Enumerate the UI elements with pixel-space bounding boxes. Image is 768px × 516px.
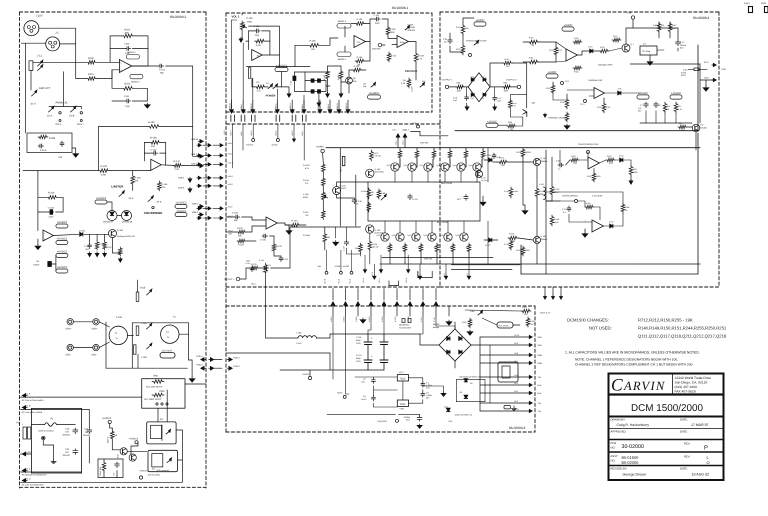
transistor Q100 xyxy=(109,230,117,238)
svg-text:19 AUG 02: 19 AUG 02 xyxy=(692,473,710,477)
resistor R102 feedback xyxy=(122,34,134,38)
capacitor C8 xyxy=(655,102,657,104)
resistor R127 xyxy=(370,150,374,161)
transistor Q139 driver xyxy=(366,225,374,233)
svg-text:J10-2: J10-2 xyxy=(402,129,407,132)
ground vas xyxy=(335,241,337,243)
terminal +HVDC2 supply xyxy=(108,420,111,423)
wire A3B in xyxy=(388,36,397,39)
svg-text:RED: RED xyxy=(538,336,543,339)
ground reg supply xyxy=(443,392,445,394)
svg-text:C2-16: C2-16 xyxy=(356,354,362,357)
svg-text:OVERCURRENT: OVERCURRENT xyxy=(562,195,579,198)
resistor R139 xyxy=(148,125,161,129)
wire emitter rail bottom xyxy=(382,257,493,259)
connector arrow H1B-D xyxy=(252,108,254,112)
svg-text:+15VBC1: +15VBC1 xyxy=(368,92,380,95)
wire drop xyxy=(370,289,372,301)
svg-text:B-D: B-D xyxy=(117,454,120,458)
wire protect xyxy=(415,63,417,80)
ground header xyxy=(293,138,295,141)
wire vbus b xyxy=(355,175,357,226)
svg-text:HS5-1: HS5-1 xyxy=(197,355,204,358)
diode D20 xyxy=(474,42,478,45)
wire bottom rail xyxy=(380,263,700,265)
svg-text:R140,R149,R150,R151,R244,R255,: R140,R149,R150,R151,R244,R255,R250,R251 xyxy=(638,326,727,331)
svg-text:4.7R 4W: 4.7R 4W xyxy=(373,155,381,158)
resistor R24f xyxy=(573,66,582,70)
capacitor C140 xyxy=(255,30,257,32)
svg-text:-15VDC2: -15VDC2 xyxy=(176,210,187,213)
power +HVDC oc xyxy=(474,22,486,26)
svg-text:HT-3: HT-3 xyxy=(514,400,518,403)
svg-text:GRN: GRN xyxy=(538,362,543,365)
diode D13 xyxy=(610,224,613,228)
svg-text:R-134: R-134 xyxy=(303,179,309,182)
svg-text:POWER: POWER xyxy=(266,95,276,98)
wire rc net xyxy=(103,459,105,461)
capacitor C17 xyxy=(494,96,496,98)
ground diode xyxy=(318,101,320,105)
svg-text:Bridge: Bridge xyxy=(433,326,440,329)
wire relay net xyxy=(465,310,521,311)
terminal HVDC supply2 xyxy=(343,395,346,398)
connector arrow PS4 xyxy=(370,303,372,307)
wire top rail xyxy=(326,147,700,149)
svg-text:Q112: Q112 xyxy=(437,164,441,167)
transistor Q31 xyxy=(129,454,136,461)
power +HVDC2 c xyxy=(56,253,68,257)
transistor Q107 right xyxy=(475,170,482,177)
wire C21 bus xyxy=(88,410,90,429)
svg-text:L-100: L-100 xyxy=(296,332,302,335)
svg-text:22uF: 22uF xyxy=(49,216,55,219)
svg-text:2W: 2W xyxy=(371,194,374,197)
svg-text:H0B-D: H0B-D xyxy=(250,130,253,136)
svg-text:H1B-K: H1B-K xyxy=(317,103,320,109)
wire C102 to limiter bus xyxy=(166,66,193,126)
wire jog b xyxy=(418,271,432,277)
terminal CR1- a xyxy=(67,344,73,350)
resistor R143 xyxy=(339,70,343,80)
svg-text:220uF 50V: 220uF 50V xyxy=(99,466,102,476)
connector arrow HT xyxy=(552,287,554,295)
svg-text:1. ALL CAPACITORS VALUES ARE: 1. ALL CAPACITORS VALUES ARE IN MICROFAR… xyxy=(565,351,700,355)
jumper J-106 xyxy=(147,325,152,329)
resistor R65 xyxy=(507,124,516,128)
connector arrow H2B-H left xyxy=(197,144,200,146)
svg-text:0.0047: 0.0047 xyxy=(33,263,40,266)
svg-text:C-102: C-102 xyxy=(232,212,239,215)
svg-text:R712,R212,R150,R255 - 19K: R712,R212,R150,R255 - 19K xyxy=(638,318,693,323)
jack OUTPUT 1 xyxy=(445,85,448,88)
ground A1B xyxy=(37,244,39,246)
svg-text:2N5400: 2N5400 xyxy=(700,127,707,130)
wire collector stub b xyxy=(431,221,433,233)
svg-text:C-138: C-138 xyxy=(356,200,361,203)
svg-text:D21: D21 xyxy=(481,97,484,100)
transistor Q120 xyxy=(460,233,468,241)
svg-text:Q-106: Q-106 xyxy=(340,185,346,188)
wire bottom bus xyxy=(105,322,107,368)
svg-text:S2-B: S2-B xyxy=(69,115,75,118)
connector arrow H1B-N xyxy=(347,108,349,112)
wire collector stub b xyxy=(463,221,465,233)
wire drop xyxy=(345,289,347,301)
diode D107 xyxy=(489,238,492,242)
svg-text:R-127: R-127 xyxy=(373,152,378,155)
svg-text:H1B-G: H1B-G xyxy=(289,103,292,109)
svg-text:H0B-A: H0B-A xyxy=(275,130,278,136)
wire A1B feedback xyxy=(37,171,39,231)
svg-text:GND LIFT: GND LIFT xyxy=(39,87,51,90)
svg-text:Q115: Q115 xyxy=(377,234,381,237)
svg-text:DCM 1500/2000: DCM 1500/2000 xyxy=(631,403,703,414)
resistor R167 xyxy=(387,52,391,62)
op-amp A2 input stage xyxy=(119,60,131,73)
resistor R19 xyxy=(461,24,465,35)
svg-text:.04.Cx: .04.Cx xyxy=(361,398,367,401)
terminal tp xyxy=(469,54,472,57)
svg-text:RLY CNTR: RLY CNTR xyxy=(499,325,509,328)
wire A1B out xyxy=(54,234,80,235)
resistor R101 xyxy=(87,77,97,81)
svg-text:R-110: R-110 xyxy=(554,188,560,191)
svg-text:C-137: C-137 xyxy=(343,246,346,251)
svg-text:MOV mounted: MOV mounted xyxy=(157,469,169,472)
svg-text:R150: R150 xyxy=(418,247,422,250)
ground led xyxy=(288,92,290,96)
svg-text:80-02000: 80-02000 xyxy=(622,460,640,465)
svg-text:NOTE: CHANNEL 1 REFERENCE DES: NOTE: CHANNEL 1 REFERENCE DESIGNATORS BE… xyxy=(575,358,678,362)
resistor R152A xyxy=(322,163,326,173)
transistor Q21 xyxy=(523,110,527,117)
transistor Q5 xyxy=(346,77,353,84)
svg-text:CR1+: CR1+ xyxy=(66,328,73,331)
capacitor C7 xyxy=(645,102,647,104)
svg-text:10R 1W: 10R 1W xyxy=(372,246,379,249)
resistor R163 xyxy=(355,22,365,26)
wire collector stub b xyxy=(399,221,401,233)
transistor Q119 xyxy=(444,233,452,241)
svg-text:100R: 100R xyxy=(596,175,601,178)
wire output HT-7 xyxy=(480,362,528,364)
svg-text:VFW: VFW xyxy=(400,408,405,411)
LED D140 signal xyxy=(405,27,409,30)
svg-text:H10-B: H10-B xyxy=(323,278,326,284)
jack OUTPUT 2 xyxy=(517,85,520,88)
inductor L101 xyxy=(544,187,546,200)
svg-text:REVISED BY:: REVISED BY: xyxy=(611,468,628,471)
wire CR1+ pair xyxy=(73,321,92,323)
svg-text:J-CLO: J-CLO xyxy=(412,198,418,201)
svg-text:(619) 487-1600: (619) 487-1600 xyxy=(675,385,698,389)
svg-text:H10-E: H10-E xyxy=(338,278,341,284)
connector arrow H2B-G mid xyxy=(207,217,210,219)
svg-text:S YEL: S YEL xyxy=(433,317,436,322)
connector HS5-1 right xyxy=(227,359,231,361)
svg-text:R-165: R-165 xyxy=(357,56,364,59)
op-amp A1-A limiter xyxy=(151,159,161,170)
connector arrow H2B-J right xyxy=(219,163,222,165)
regulator VR2 xyxy=(397,400,408,407)
svg-text:+HVDC2: +HVDC2 xyxy=(129,438,139,441)
svg-text:J45902-3: J45902-3 xyxy=(338,20,347,23)
wire fan out xyxy=(630,63,700,65)
terminal CH2+ xyxy=(80,112,82,114)
wire A1B in gnd xyxy=(37,239,39,244)
resistor R141 xyxy=(352,68,362,72)
wire collector stub xyxy=(427,171,429,182)
wire q3 xyxy=(687,126,692,128)
svg-text:86-02000-3: 86-02000-3 xyxy=(509,426,526,430)
connector arrow H2B-E mid xyxy=(207,185,210,187)
wire drop xyxy=(396,289,398,301)
resistor R152 emitter bottom xyxy=(451,243,455,253)
resistor R116 xyxy=(47,196,58,200)
svg-text:R-168: R-168 xyxy=(418,55,425,58)
capacitor C138 xyxy=(353,198,355,200)
svg-text:R-12: R-12 xyxy=(505,58,509,61)
svg-text:+HVBC: +HVBC xyxy=(316,146,324,149)
wire diode net xyxy=(293,72,295,76)
wire output feed down xyxy=(265,274,267,338)
wire 100M to gnd xyxy=(72,148,76,152)
resistor R143 emitter top xyxy=(432,150,436,160)
svg-text:REV:: REV: xyxy=(684,443,690,446)
resistor R148 emitter bottom xyxy=(388,243,392,253)
wire top link xyxy=(132,322,188,324)
svg-text:Earth to chassis: Earth to chassis xyxy=(38,430,54,433)
svg-text:H0B-G: H0B-G xyxy=(291,130,294,136)
svg-text:NO:: NO: xyxy=(611,447,616,450)
svg-text:APPROVED:: APPROVED: xyxy=(611,431,627,434)
resistor R44v xyxy=(621,203,625,213)
wire oc xyxy=(560,200,575,202)
svg-text:H1B-H: H1B-H xyxy=(229,103,232,109)
resistor R12 xyxy=(503,61,513,65)
wire fan net xyxy=(523,41,528,43)
ground out1 xyxy=(466,105,468,109)
svg-text:VOL 1: VOL 1 xyxy=(232,15,240,19)
resistor RV1 xyxy=(629,165,633,176)
svg-text:SIGNAL: SIGNAL xyxy=(408,26,416,29)
svg-text:Q-100: Q-100 xyxy=(117,229,124,232)
diode D40 xyxy=(478,312,482,315)
svg-text:DATE:: DATE: xyxy=(680,419,688,422)
svg-text:80-02000-2: 80-02000-2 xyxy=(170,15,187,19)
svg-text:A3-B: A3-B xyxy=(400,41,405,44)
svg-text:2: 2 xyxy=(121,62,122,65)
wire power led xyxy=(252,78,255,87)
svg-text:10K: 10K xyxy=(311,48,315,51)
terminal CH2- xyxy=(59,112,61,114)
ground C4 xyxy=(419,424,421,426)
svg-text:R-116: R-116 xyxy=(48,192,55,195)
resistor R82 xyxy=(606,158,615,162)
svg-text:Q110: Q110 xyxy=(404,164,408,167)
ground right xyxy=(524,209,526,211)
svg-text:DIP100-1B: DIP100-1B xyxy=(122,221,133,224)
svg-text:H2B-D: H2B-D xyxy=(228,175,234,178)
capacitor bank b xyxy=(383,334,385,342)
connector arrow H10-F xyxy=(373,275,375,278)
resistor P160 xyxy=(308,44,320,48)
svg-text:H0B-H: H0B-H xyxy=(230,130,233,136)
svg-text:2.2K: 2.2K xyxy=(175,168,180,171)
connector arrow H1B-L xyxy=(329,108,331,112)
svg-text:R-163: R-163 xyxy=(504,190,509,193)
resistor R4 xyxy=(407,78,411,88)
svg-text:22pF: 22pF xyxy=(375,22,380,25)
resistor R88 bias xyxy=(377,189,381,199)
power +HVDC2 d xyxy=(56,269,68,273)
svg-text:2x() PWR: 2x() PWR xyxy=(378,420,388,423)
power +HVDC2 limiter xyxy=(95,200,107,204)
resistor R146 xyxy=(158,181,162,191)
connector arrow H2B-H mid xyxy=(207,144,210,146)
svg-text:Q117: Q117 xyxy=(408,234,412,237)
svg-text:70R: 70R xyxy=(573,162,577,165)
resistor R76 xyxy=(102,461,106,472)
wire right pair xyxy=(451,264,520,266)
svg-text:FAN: FAN xyxy=(722,68,727,71)
resistor R135b xyxy=(264,263,268,274)
svg-text:R-141: R-141 xyxy=(354,65,361,68)
solid box right xyxy=(697,133,699,274)
connector arrow QC3 xyxy=(445,275,447,278)
transistor Q7 xyxy=(622,44,630,52)
svg-text:80-02008-4: 80-02008-4 xyxy=(693,16,710,20)
pin header stub xyxy=(248,68,250,79)
svg-text:12V Reg: 12V Reg xyxy=(642,50,651,53)
svg-text:470R: 470R xyxy=(256,44,261,47)
board outline 86-02000-3 power supply xyxy=(226,305,535,307)
capacitor C6 xyxy=(38,145,40,147)
wire bridge top feed xyxy=(490,63,503,87)
IC outline LF353 bottom xyxy=(337,52,351,57)
terminal H10-E xyxy=(340,271,343,274)
svg-text:OUTPUT 1: OUTPUT 1 xyxy=(442,79,454,82)
diode D1A xyxy=(311,79,314,82)
svg-text:# YEL: # YEL xyxy=(420,317,423,322)
svg-text:ASSY: ASSY xyxy=(611,455,618,458)
capacitor C102 xyxy=(158,65,160,67)
IC outline J45902-3 bottom xyxy=(130,74,143,79)
power +15VDC right a xyxy=(637,95,649,99)
svg-text:#1 B: #1 B xyxy=(26,404,31,407)
terminal 2x0 PWR xyxy=(396,419,399,422)
svg-text:ASSY: ASSY xyxy=(744,2,750,5)
svg-text:Q-108: Q-108 xyxy=(375,168,381,171)
resistor R40 xyxy=(528,40,539,44)
svg-text:AC Neutral to transformer: AC Neutral to transformer xyxy=(22,473,47,476)
connector arrow H2B-J mid xyxy=(207,163,210,165)
svg-text:BLK: BLK xyxy=(538,384,543,387)
resistor R141 emitter top xyxy=(398,150,402,160)
svg-text:.47u: .47u xyxy=(361,381,365,384)
svg-text:27pF: 27pF xyxy=(125,52,131,55)
title block row lines xyxy=(609,393,724,395)
switch S2-B xyxy=(71,108,76,112)
resistor R148a xyxy=(95,241,99,251)
LED D141 clip xyxy=(371,84,375,87)
svg-text:100M: 100M xyxy=(49,137,55,140)
svg-text:R-146: R-146 xyxy=(161,183,168,186)
wire bias net xyxy=(337,182,368,186)
connector arrow H1B-H xyxy=(231,108,233,112)
svg-text:R151: R151 xyxy=(434,247,438,250)
svg-text:47k: 47k xyxy=(268,264,271,267)
svg-text:R-113: R-113 xyxy=(509,233,515,236)
connector bracket xyxy=(291,115,293,122)
connector J10-2 xyxy=(404,135,406,139)
svg-text:George Dreyer: George Dreyer xyxy=(623,473,648,477)
connector #1 B xyxy=(24,407,28,409)
svg-text:250K: 250K xyxy=(247,20,253,23)
transistor Q161 xyxy=(533,158,540,165)
svg-text:J10-X: J10-X xyxy=(223,130,226,135)
svg-text:QCB: QCB xyxy=(26,451,31,454)
svg-text:THERMAL SENSOR: THERMAL SENSOR xyxy=(548,117,568,120)
resistor R154 xyxy=(323,232,327,243)
svg-text:R-126: R-126 xyxy=(238,244,245,247)
wire P100 xyxy=(241,31,243,38)
connector arrow QC1 xyxy=(468,275,470,278)
wire A3 net xyxy=(344,26,346,37)
capacitor C45 xyxy=(558,164,560,166)
svg-text:H2B-J: H2B-J xyxy=(228,161,233,164)
svg-text:NO:: NO: xyxy=(611,460,616,463)
svg-text:H1B-J: H1B-J xyxy=(301,104,304,109)
svg-text:4.7k: 4.7k xyxy=(305,167,309,170)
wire thermal xyxy=(552,82,554,84)
svg-text:C101: C101 xyxy=(124,95,130,98)
wire limiter feedback xyxy=(144,141,149,143)
svg-text:R-143: R-143 xyxy=(337,75,340,80)
svg-text:R-65: R-65 xyxy=(508,121,512,124)
resistor R150 emitter bottom xyxy=(419,243,423,253)
wire output HT-4 xyxy=(480,392,528,394)
svg-text:470K: 470K xyxy=(101,174,107,177)
wire drop xyxy=(332,289,334,301)
power -15VDC2 xyxy=(175,213,187,217)
svg-text:# BRN: # BRN xyxy=(342,316,345,322)
ground P100 xyxy=(240,37,242,41)
circle output1 term xyxy=(236,277,240,281)
diode D1D xyxy=(318,90,321,93)
wire output node xyxy=(546,200,552,202)
diode D106 xyxy=(489,158,492,162)
op-amp A1-B xyxy=(43,230,53,241)
switch S4-B xyxy=(148,198,153,202)
wire collector stub xyxy=(476,171,478,182)
wire collector stub xyxy=(394,171,396,182)
ground mid xyxy=(482,201,484,203)
svg-text:+15VDC: +15VDC xyxy=(487,120,497,123)
title block border xyxy=(609,374,724,481)
svg-text:D6: D6 xyxy=(460,391,462,394)
connector arrow H1B-M xyxy=(338,108,340,112)
wire D5 net xyxy=(51,263,56,265)
wire right bus xyxy=(640,122,692,124)
svg-text:HT-10: HT-10 xyxy=(514,334,519,337)
connector arrow H2B-2 xyxy=(198,165,202,167)
ground out2 xyxy=(494,105,496,109)
svg-text:Q20: Q20 xyxy=(532,102,536,105)
resistor R110 xyxy=(550,185,554,196)
svg-text:27k: 27k xyxy=(305,182,308,185)
